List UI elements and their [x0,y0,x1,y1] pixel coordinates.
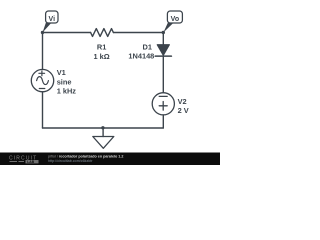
node dot ground junction [101,126,104,129]
svg-text:http://circuitlab.com/c6kzktr: http://circuitlab.com/c6kzktr [48,159,93,163]
footer logo LAB box [26,160,39,163]
flag Vo box [167,11,182,23]
wire top right [113,32,163,34]
svg-text:1N4148: 1N4148 [128,52,154,61]
V1 plus [39,71,45,76]
voltage source V2 circle [152,93,174,115]
footer bar [0,153,220,166]
svg-text:D1: D1 [143,43,152,52]
V1 minus [39,88,45,90]
svg-text:sine: sine [57,78,72,87]
svg-text:1 kHz: 1 kHz [57,86,77,95]
resistor R1 [91,29,114,37]
wire V2 to bottom [162,115,164,128]
wire left rail upper [42,33,44,70]
flag Vi tail [43,23,52,33]
svg-text:V1: V1 [57,68,66,77]
wire right rail: node to diode [162,33,164,45]
V2 minus [159,95,167,97]
svg-text:V2: V2 [178,97,187,106]
diode D1 triangle [157,45,169,56]
svg-text:Vi: Vi [49,16,56,23]
svg-text:LAB: LAB [27,160,35,164]
svg-text:Vo: Vo [171,16,179,23]
node dot Vi [41,31,44,34]
svg-text:2 V: 2 V [178,106,189,115]
svg-text:piñol / recortador polarizado: piñol / recortador polarizado en paralel… [48,154,123,158]
wire bottom [43,127,164,129]
wire diode to V2 [162,56,164,93]
voltage source V1 circle [31,69,53,91]
wire top left [43,32,91,34]
flag Vi box [46,11,58,23]
V1 sine [37,77,49,85]
flag Vo tail [163,23,173,33]
V2 plus [159,102,167,111]
ground stem [102,128,104,137]
node dot Vo [162,31,165,34]
svg-text:1 kΩ: 1 kΩ [93,52,109,61]
wire left rail lower [42,92,44,128]
ground triangle [93,137,114,149]
svg-text:R1: R1 [97,42,106,51]
diode D1 cathode bar [155,55,171,57]
footer logo dashes [10,161,25,163]
